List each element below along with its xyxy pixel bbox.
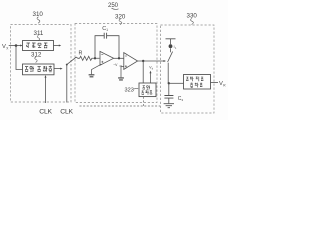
current source I1: [169, 44, 173, 48]
svg-text:323: 323: [125, 87, 134, 93]
input Vx label: [2, 44, 9, 51]
svg-text:X: X: [6, 46, 9, 50]
feedback loop wire top right+down: [107, 36, 119, 58]
wire: CLK up into 312: [45, 78, 47, 104]
svg-text:CLK: CLK: [39, 109, 52, 116]
feedback loop wire left+top: [95, 36, 104, 59]
node dot in 330: [168, 82, 170, 84]
box 312 (detector block): [23, 64, 55, 75]
output wire VR: [211, 82, 219, 84]
wire down to node in 330: [167, 63, 170, 84]
resistor R zigzag: [80, 56, 100, 60]
box 311 korean text (simulated glyph strokes): [27, 43, 48, 48]
node comparator out dot: [142, 60, 144, 62]
dashed block 320: [75, 24, 157, 103]
ground g2 bars: [118, 78, 124, 80]
label 320: [115, 14, 126, 25]
node feedback/output dot: [118, 57, 120, 59]
node input dot: [15, 44, 18, 47]
capacitor C3 plates: [164, 96, 173, 99]
comparator U2 triangle: [124, 53, 138, 70]
ground g1 bars: [89, 75, 95, 77]
label 323: [125, 87, 139, 93]
box 311 (amplifier block): [23, 41, 54, 51]
arrowhead into 330 switch: [164, 60, 167, 62]
U1 ref branch to ground: [92, 64, 102, 74]
U2 output wire to switch in 330: [138, 60, 165, 62]
dashed block 310: [11, 25, 72, 103]
box 323 (control block): [139, 83, 156, 97]
box 331 (reference output block): [184, 75, 211, 90]
wire down to 323: [142, 61, 144, 83]
box 323 korean text line1: [143, 85, 150, 89]
svg-text:CLK: CLK: [60, 109, 73, 116]
box 312 korean text (simulated glyph strokes): [25, 66, 52, 72]
op-amp U1 plus: [101, 61, 103, 63]
dashed branch up into 323: [143, 97, 145, 106]
wire node down to C3: [168, 83, 170, 95]
wire to resistor: [76, 57, 79, 58]
svg-text:1: 1: [175, 47, 177, 50]
dashed block 330: [161, 25, 215, 113]
svg-text:320: 320: [115, 14, 126, 21]
ground g3: [164, 104, 174, 108]
box 323 korean text line2: [142, 90, 152, 95]
output arrow of 312: [54, 68, 61, 70]
svg-text:311: 311: [34, 30, 44, 37]
input wire: [9, 45, 22, 47]
svg-text:3: 3: [181, 98, 183, 102]
capacitor C1 plates: [104, 33, 106, 39]
label 330: [187, 13, 198, 25]
svg-text:b: b: [152, 68, 154, 71]
arrow into 311: [20, 45, 22, 47]
supply T-bar in 330: [166, 39, 176, 44]
control line up from 323: [150, 72, 152, 83]
label 250: [108, 3, 119, 10]
wire C3 to ground: [168, 98, 170, 103]
U2 minus: [125, 55, 127, 57]
svg-text:1: 1: [106, 28, 108, 32]
box 331 korean text line1: [186, 77, 203, 82]
svg-text:250: 250: [108, 3, 119, 9]
node op-amp input dot: [94, 57, 96, 59]
svg-text:~V: ~V: [113, 63, 118, 67]
arrowhead up into box 312: [45, 75, 47, 78]
U2 plus: [125, 65, 127, 67]
svg-text:R: R: [79, 51, 83, 57]
svg-text:312: 312: [31, 51, 42, 58]
svg-text:R: R: [223, 83, 226, 87]
U2 ref branch to ground: [121, 67, 124, 78]
wire branch down from input node: [16, 46, 23, 70]
label C3: [178, 96, 184, 102]
label 312: [31, 51, 42, 62]
op-amp U1 minus: [101, 54, 103, 56]
dashed CLK control line: [80, 105, 161, 107]
switch 313 blade: [67, 57, 77, 65]
switch blade in 330: [168, 52, 173, 62]
op-amp U1 triangle: [100, 51, 114, 65]
label 310: [33, 11, 44, 23]
label VR: [219, 81, 226, 87]
output arrow of 311: [54, 45, 60, 47]
switch 313 post down to CLK: [66, 64, 68, 102]
U1 output wire: [114, 57, 124, 59]
label 311: [34, 30, 44, 41]
wire node to box 331: [169, 82, 184, 84]
wire below source: [170, 48, 172, 52]
label C1: [102, 26, 108, 32]
box 331 korean text line2: [190, 83, 202, 88]
